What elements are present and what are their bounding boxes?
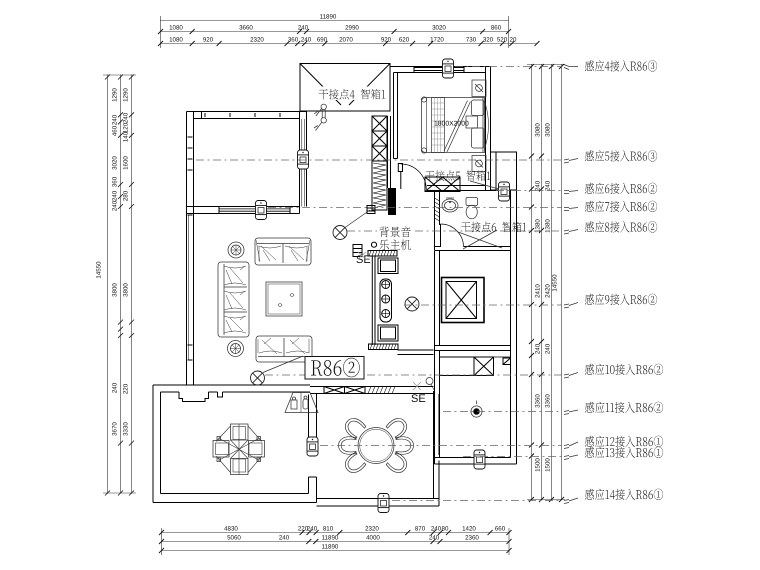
living: round side table S	[228, 341, 244, 357]
sensor 13 (kitchen bottom wall)	[474, 450, 485, 469]
svg-text:220: 220	[123, 383, 130, 394]
toilet	[466, 198, 478, 219]
svg-text:360: 360	[112, 176, 119, 187]
living: round side table N	[228, 242, 244, 258]
lamp8 diagonal leader	[345, 210, 370, 228]
svg-text:810: 810	[323, 526, 334, 533]
bedroom door + arc	[398, 164, 426, 190]
svg-text:240: 240	[301, 37, 312, 44]
svg-text:730: 730	[466, 37, 477, 44]
svg-text:120: 120	[123, 122, 130, 133]
left dimension chain lines	[103, 75, 136, 494]
svg-text:240: 240	[112, 200, 119, 211]
kitchen sink	[471, 401, 482, 418]
coffee table	[266, 282, 302, 316]
TV wall: speaker bar bottom	[369, 344, 399, 350]
svg-text:240: 240	[112, 190, 119, 201]
small circle near SE2	[426, 378, 433, 385]
dash line sink11	[443, 411, 562, 413]
porch doorbell circles	[314, 104, 326, 130]
SW room left wall	[153, 385, 161, 503]
svg-text:460: 460	[112, 125, 119, 136]
svg-text:240: 240	[535, 343, 542, 354]
sensor 5 (hall west wall)	[298, 150, 309, 169]
svg-text:11890: 11890	[322, 535, 339, 542]
dash line sensor14	[392, 500, 562, 502]
svg-text:240: 240	[279, 535, 290, 542]
top row2 numbers	[169, 37, 517, 44]
bedroom left wall	[394, 73, 398, 159]
svg-text:3360: 3360	[545, 394, 552, 408]
svg-text:1420: 1420	[462, 526, 476, 533]
svg-text:3330: 3330	[123, 422, 130, 436]
AC platform NE	[491, 152, 517, 190]
shaft room west wall	[435, 251, 440, 346]
dining bottom wall	[317, 461, 440, 507]
svg-text:1500: 1500	[535, 458, 542, 472]
svg-text:1080: 1080	[169, 37, 183, 44]
bedroom closet (X)	[425, 177, 460, 192]
canopy arc	[485, 101, 489, 149]
left outer wall	[187, 112, 194, 386]
svg-text:2410: 2410	[535, 284, 542, 298]
bottom row2 numbers	[227, 535, 479, 542]
dash line 10	[265, 374, 562, 376]
svg-text:80: 80	[442, 526, 449, 533]
label arrows	[564, 65, 578, 504]
svg-text:870: 870	[415, 526, 426, 533]
kitchen room	[435, 346, 440, 465]
left chain numbers (rotated)	[96, 88, 130, 436]
dining east wall	[434, 391, 440, 461]
shaft with X	[442, 278, 485, 323]
sensor 6 (bathroom top)	[499, 182, 510, 201]
bathroom bottom wall + door	[435, 224, 511, 251]
black column	[388, 188, 396, 215]
svg-text:11890: 11890	[320, 14, 337, 21]
dash line sensor5	[196, 159, 562, 161]
svg-text:1720: 1720	[430, 37, 444, 44]
lamp (living near TV)	[333, 226, 347, 240]
svg-text:920: 920	[381, 37, 392, 44]
dash line sensor4	[455, 66, 562, 68]
top row1 numbers	[169, 25, 502, 32]
dash line sensor13	[463, 456, 562, 458]
top wall (living/NW room)	[187, 112, 307, 119]
svg-text:SE: SE	[411, 393, 426, 405]
svg-text:1800X2000: 1800X2000	[434, 121, 469, 128]
text5 leader to sensor6	[470, 181, 499, 189]
right chain ticks	[529, 64, 564, 502]
svg-text:1080: 1080	[169, 25, 183, 32]
svg-text:860: 860	[491, 25, 502, 32]
TV wall: speaker bar top	[353, 242, 397, 256]
svg-text:14550: 14550	[96, 261, 103, 279]
svg-text:2990: 2990	[345, 25, 359, 32]
svg-text:240: 240	[535, 180, 542, 191]
bedside table bottom	[472, 156, 486, 172]
svg-text:1600: 1600	[123, 156, 130, 170]
partition wall living/NW room with sliding track	[187, 207, 300, 214]
easel / fireplace trapezoid	[285, 393, 318, 413]
svg-text:2420: 2420	[545, 284, 552, 298]
svg-text:240: 240	[545, 343, 552, 354]
svg-text:690: 690	[317, 37, 328, 44]
bedside table top	[472, 80, 486, 97]
hallway west wall	[300, 112, 307, 214]
corridor-dining threshold	[398, 350, 434, 355]
top row1 ticks	[158, 29, 511, 34]
svg-text:3670: 3670	[112, 422, 119, 436]
svg-text:240: 240	[429, 535, 440, 542]
svg-text:240: 240	[431, 526, 442, 533]
hallway small hatch box	[367, 206, 375, 214]
svg-text:140: 140	[123, 131, 130, 142]
SW room bottom wall	[153, 494, 317, 503]
dining chairs x6	[339, 415, 414, 477]
dining round table	[358, 428, 394, 464]
svg-text:240: 240	[545, 180, 552, 191]
SW/dining separation wall	[309, 394, 317, 503]
entry porch	[300, 64, 390, 112]
dash line lamp8	[347, 230, 562, 232]
svg-text:240: 240	[112, 114, 119, 125]
dash line sensor7	[268, 207, 562, 209]
bathroom left wall (hatched)	[435, 191, 440, 251]
sensor 4 (bedroom window)	[443, 59, 454, 78]
svg-text:1290: 1290	[112, 88, 119, 102]
svg-text:20: 20	[510, 37, 517, 44]
svg-text:3080: 3080	[545, 123, 552, 137]
dash line sensor6	[496, 190, 562, 192]
svg-text:920: 920	[203, 37, 214, 44]
svg-text:1290: 1290	[123, 88, 130, 102]
svg-text:3800: 3800	[112, 283, 119, 297]
SW room top wall with pillar bump	[153, 385, 310, 402]
svg-text:280: 280	[123, 190, 130, 201]
svg-text:2320: 2320	[365, 526, 379, 533]
svg-text:1500: 1500	[545, 458, 552, 472]
dining top wall with X band and hatch	[310, 387, 434, 394]
bedroom bottom wall	[427, 186, 508, 191]
TV corridor wall line	[372, 256, 375, 345]
living: bottom 2-seat sofa	[256, 336, 312, 362]
lampSW diagonal leader	[263, 356, 303, 373]
bottom row2 ticks	[159, 539, 512, 544]
SW room: square table group (4 chairs + web)	[213, 424, 265, 475]
bathroom sink	[442, 198, 458, 212]
bottom dimension chain lines	[161, 528, 510, 555]
svg-text:3020: 3020	[112, 156, 119, 170]
dash line sensor12	[320, 445, 562, 447]
svg-text:4000: 4000	[366, 535, 380, 542]
svg-text:14550: 14550	[552, 274, 559, 292]
svg-text:360: 360	[288, 37, 299, 44]
svg-text:3800: 3800	[123, 283, 130, 297]
living SW step	[186, 381, 188, 385]
dash line lamp9	[404, 304, 562, 306]
crossing leaders bathroom	[458, 232, 502, 248]
svg-text:620: 620	[399, 37, 410, 44]
bottom row1 ticks	[159, 530, 512, 535]
white box under 背景音乐主机	[377, 224, 413, 250]
svg-text:3080: 3080	[535, 123, 542, 137]
bedroom right wall	[486, 67, 492, 191]
svg-text:2070: 2070	[339, 37, 353, 44]
foot posts	[421, 97, 426, 102]
lamp (living SW)	[251, 371, 265, 385]
right chain numbers (rotated)	[535, 123, 559, 472]
kitchen top wall band	[435, 346, 511, 351]
svg-text:5060: 5060	[227, 535, 241, 542]
svg-text:240: 240	[123, 112, 130, 123]
left chain ticks	[105, 75, 134, 496]
svg-text:660: 660	[495, 526, 506, 533]
svg-text:240: 240	[112, 382, 119, 393]
bottom row1 numbers	[224, 526, 506, 533]
lamp (corridor)	[405, 297, 419, 311]
svg-text:240: 240	[307, 526, 318, 533]
kitchen counter with X cell	[440, 357, 511, 376]
hallway wardrobe strip (X cells + coil)	[372, 116, 391, 215]
svg-text:2320: 2320	[250, 37, 264, 44]
SE marks	[356, 254, 426, 405]
pillows	[472, 100, 485, 116]
R86 box	[305, 357, 364, 380]
kitchen bottom wall	[435, 458, 517, 465]
TV cabinet	[378, 258, 398, 341]
white box under 干接点4 label	[317, 87, 388, 101]
living: top 2-seat sofa	[255, 238, 311, 265]
svg-text:240: 240	[298, 25, 309, 32]
svg-text:11890: 11890	[322, 544, 339, 551]
living: 3-seat sofa	[218, 262, 249, 337]
svg-text:2360: 2360	[465, 535, 479, 542]
bathroom right wall / east outer wall	[511, 191, 517, 465]
svg-text:3660: 3660	[239, 25, 253, 32]
svg-text:520: 520	[497, 37, 508, 44]
svg-text:3360: 3360	[535, 394, 542, 408]
sensor 7 (living partition wall)	[256, 201, 267, 220]
top row2 ticks	[158, 41, 540, 46]
sensor 14 (dining bottom wall)	[378, 494, 389, 513]
top dimension chain lines	[160, 16, 537, 48]
sensor 12 (dining west wall)	[307, 437, 318, 456]
svg-text:3020: 3020	[432, 25, 446, 32]
bed 1800x2000	[421, 97, 488, 153]
bedroom top wall with window	[390, 67, 491, 73]
svg-text:SE: SE	[356, 254, 371, 266]
right dimension chain lines	[527, 64, 565, 500]
svg-text:4830: 4830	[224, 526, 238, 533]
svg-text:320: 320	[483, 37, 494, 44]
